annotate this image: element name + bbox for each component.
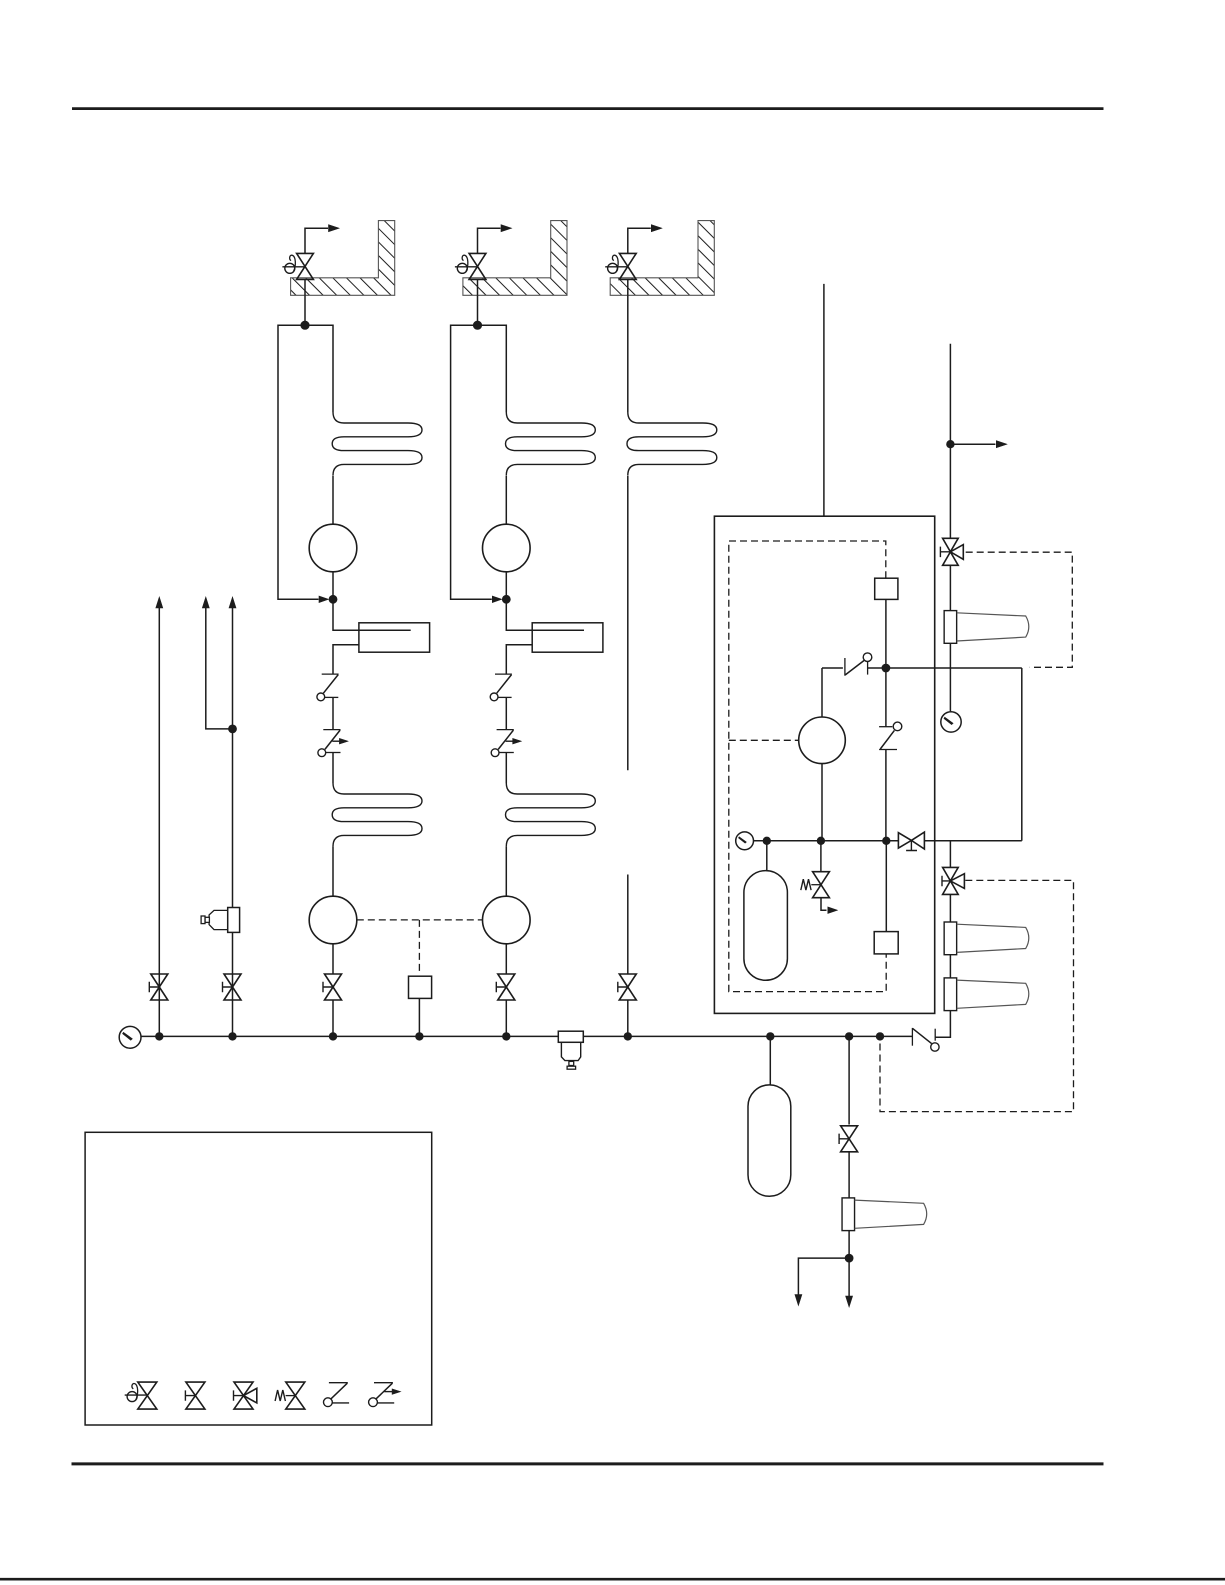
wire bbox=[477, 279, 479, 295]
hand valve HV3 bbox=[619, 253, 636, 279]
wire bbox=[304, 279, 306, 295]
wire bbox=[332, 572, 334, 600]
heat exchanger coil HX2b bbox=[506, 783, 596, 846]
node J13 bbox=[817, 837, 825, 845]
wire bypass bbox=[278, 325, 333, 599]
dashed box DB1 bbox=[966, 552, 1073, 667]
node J4 bbox=[155, 1032, 163, 1040]
control link dashed bbox=[357, 919, 483, 921]
vent arrow A4 bbox=[156, 597, 163, 608]
wire bbox=[627, 476, 629, 771]
wire bbox=[885, 841, 887, 932]
node J9 bbox=[845, 1032, 853, 1040]
gauge PG3 bbox=[941, 712, 961, 732]
valve V3 bbox=[619, 974, 636, 1000]
vent arrow A1 bbox=[305, 228, 328, 253]
three-way valve TW2 bbox=[943, 867, 959, 894]
vent arrow A3 bbox=[628, 228, 651, 253]
wire bbox=[506, 645, 532, 674]
legend actuated switch bbox=[374, 1382, 393, 1384]
tank wall W1 bbox=[291, 221, 395, 296]
solenoid SQ1 bbox=[409, 976, 432, 998]
filter FC bbox=[228, 908, 240, 933]
node J10 bbox=[876, 1032, 884, 1040]
wire bbox=[935, 1011, 950, 1038]
tank wall W3 bbox=[610, 221, 714, 296]
legend flow switch bbox=[329, 1382, 348, 1384]
branch arrow bbox=[950, 443, 995, 445]
node J12 bbox=[763, 837, 771, 845]
wire bbox=[848, 1036, 850, 1124]
wire bbox=[359, 629, 411, 631]
hand valve HV1 bbox=[297, 253, 314, 279]
dashed box DB2 bbox=[880, 880, 1074, 1111]
wire bbox=[505, 846, 507, 896]
relief valve RV1 bbox=[813, 872, 830, 898]
control box SB2 bbox=[874, 932, 898, 954]
inline filter FL1 bbox=[558, 1031, 583, 1042]
valve VB1 bbox=[841, 1126, 858, 1152]
wire bbox=[627, 1000, 629, 1036]
three-way valve TW1 bbox=[943, 538, 959, 565]
node J11 bbox=[882, 664, 891, 673]
flow switch FS1a bbox=[322, 673, 339, 675]
wire bbox=[627, 295, 629, 412]
air filter AF4 bbox=[842, 1198, 855, 1231]
valve V2 bbox=[498, 974, 515, 1000]
legend shut-off valve bbox=[186, 1382, 205, 1409]
wire bbox=[627, 875, 629, 975]
vent line LC bbox=[232, 608, 234, 1036]
node J3c bbox=[624, 1032, 632, 1040]
wire bbox=[848, 1231, 850, 1259]
wire bbox=[868, 667, 1022, 669]
wire bbox=[949, 841, 951, 868]
vent arrow A6 bbox=[229, 597, 236, 608]
wire bbox=[505, 753, 507, 783]
valve VH1 bbox=[898, 832, 924, 849]
wire bbox=[627, 279, 629, 295]
valve V1 bbox=[325, 974, 342, 1000]
vent line LA bbox=[158, 608, 160, 1036]
wire bbox=[924, 840, 1021, 842]
flow switch FS2b bbox=[497, 729, 514, 731]
node J14 bbox=[882, 837, 890, 845]
node J2b bbox=[502, 595, 511, 604]
legend relief valve bbox=[286, 1382, 305, 1409]
air filter AF2 bbox=[944, 922, 957, 955]
legend box bbox=[85, 1132, 432, 1425]
node J2a bbox=[473, 321, 482, 330]
node J1b bbox=[329, 595, 338, 604]
relief vent arrow bbox=[821, 898, 827, 911]
pump P1b bbox=[309, 896, 357, 944]
wire bbox=[505, 1000, 507, 1036]
control link dashed bbox=[729, 739, 799, 741]
wire bbox=[333, 645, 359, 674]
vent line LB bbox=[206, 608, 233, 729]
node J7 bbox=[415, 1032, 423, 1040]
wire bbox=[766, 841, 768, 871]
enclosure box bbox=[714, 516, 934, 1013]
cylinder CY2 bbox=[532, 623, 603, 652]
wire bbox=[505, 944, 507, 974]
accumulator AC2 bbox=[748, 1085, 791, 1196]
node J15 bbox=[946, 440, 954, 448]
wire bbox=[333, 599, 411, 630]
check contact PS2 bbox=[911, 1028, 913, 1046]
wire bbox=[820, 841, 822, 872]
main header pipe bbox=[141, 1035, 912, 1037]
internal pipe bbox=[754, 840, 899, 842]
wire bbox=[1021, 668, 1023, 841]
wire bbox=[505, 572, 507, 600]
valve VA bbox=[151, 974, 168, 1000]
wire bbox=[418, 998, 420, 1036]
pump P5 bbox=[799, 717, 846, 764]
wire bbox=[332, 846, 334, 896]
wire bbox=[332, 1000, 334, 1036]
node J5 bbox=[228, 725, 237, 734]
heat exchanger coil HX2a bbox=[506, 412, 596, 475]
hand valve HV2 bbox=[469, 253, 486, 279]
wire bbox=[332, 697, 334, 729]
wire bbox=[885, 668, 887, 727]
pump P2b bbox=[483, 896, 531, 944]
vent arrow A2 bbox=[478, 228, 501, 253]
wire bbox=[821, 668, 823, 717]
heat exchanger coil HX1a bbox=[332, 412, 422, 475]
wire bbox=[506, 599, 584, 630]
node J1a bbox=[300, 321, 309, 330]
node J8 bbox=[766, 1032, 774, 1040]
supply line LT2 bbox=[949, 344, 951, 538]
drain pipe bbox=[798, 1258, 849, 1294]
flow switch FS2a bbox=[495, 673, 512, 675]
wire bbox=[821, 764, 823, 841]
legend hand valve bbox=[138, 1382, 157, 1409]
wire bbox=[949, 894, 951, 922]
heat exchanger coil HX3 bbox=[627, 412, 717, 475]
wire bbox=[949, 955, 951, 978]
node J16 bbox=[845, 1254, 854, 1263]
pump P2a bbox=[483, 524, 531, 572]
node J1c bbox=[329, 1032, 337, 1040]
air filter AF1 bbox=[944, 611, 957, 644]
wire bbox=[332, 944, 334, 974]
wire bbox=[477, 295, 479, 325]
wire bbox=[532, 629, 584, 631]
control boundary dashed bbox=[729, 541, 886, 992]
heat exchanger coil HX1b bbox=[332, 783, 422, 846]
wire bbox=[885, 750, 887, 841]
vent arrow A5 bbox=[202, 597, 209, 608]
tank wall W2 bbox=[463, 221, 567, 296]
flow switch FS5 bbox=[879, 726, 892, 728]
control box SB1 bbox=[875, 578, 898, 599]
valve VC bbox=[224, 974, 241, 1000]
wire bbox=[332, 476, 334, 525]
wire bbox=[304, 295, 306, 325]
supply line LT1 bbox=[823, 284, 825, 516]
wire bbox=[848, 1152, 850, 1198]
node J6 bbox=[228, 1032, 236, 1040]
wire bbox=[505, 476, 507, 525]
wire bbox=[949, 565, 951, 610]
air filter AF3 bbox=[944, 978, 957, 1011]
flow switch FS1b bbox=[323, 729, 340, 731]
wire bbox=[332, 753, 334, 783]
node J2c bbox=[502, 1032, 510, 1040]
accumulator AC1 bbox=[744, 871, 788, 981]
pressure switch PS1 bbox=[844, 658, 846, 676]
gauge PG2 bbox=[736, 832, 754, 850]
wire bbox=[949, 643, 951, 711]
wire bbox=[822, 667, 843, 669]
wire bypass bbox=[451, 325, 507, 599]
pressure gauge PG1 bbox=[119, 1026, 141, 1048]
pump P1a bbox=[309, 524, 357, 572]
wire bbox=[769, 1036, 771, 1085]
legend three-way valve bbox=[234, 1382, 253, 1409]
wire bbox=[885, 599, 887, 664]
cylinder CY1 bbox=[359, 623, 430, 652]
wire bbox=[505, 697, 507, 729]
drain pipe bbox=[848, 1258, 850, 1296]
